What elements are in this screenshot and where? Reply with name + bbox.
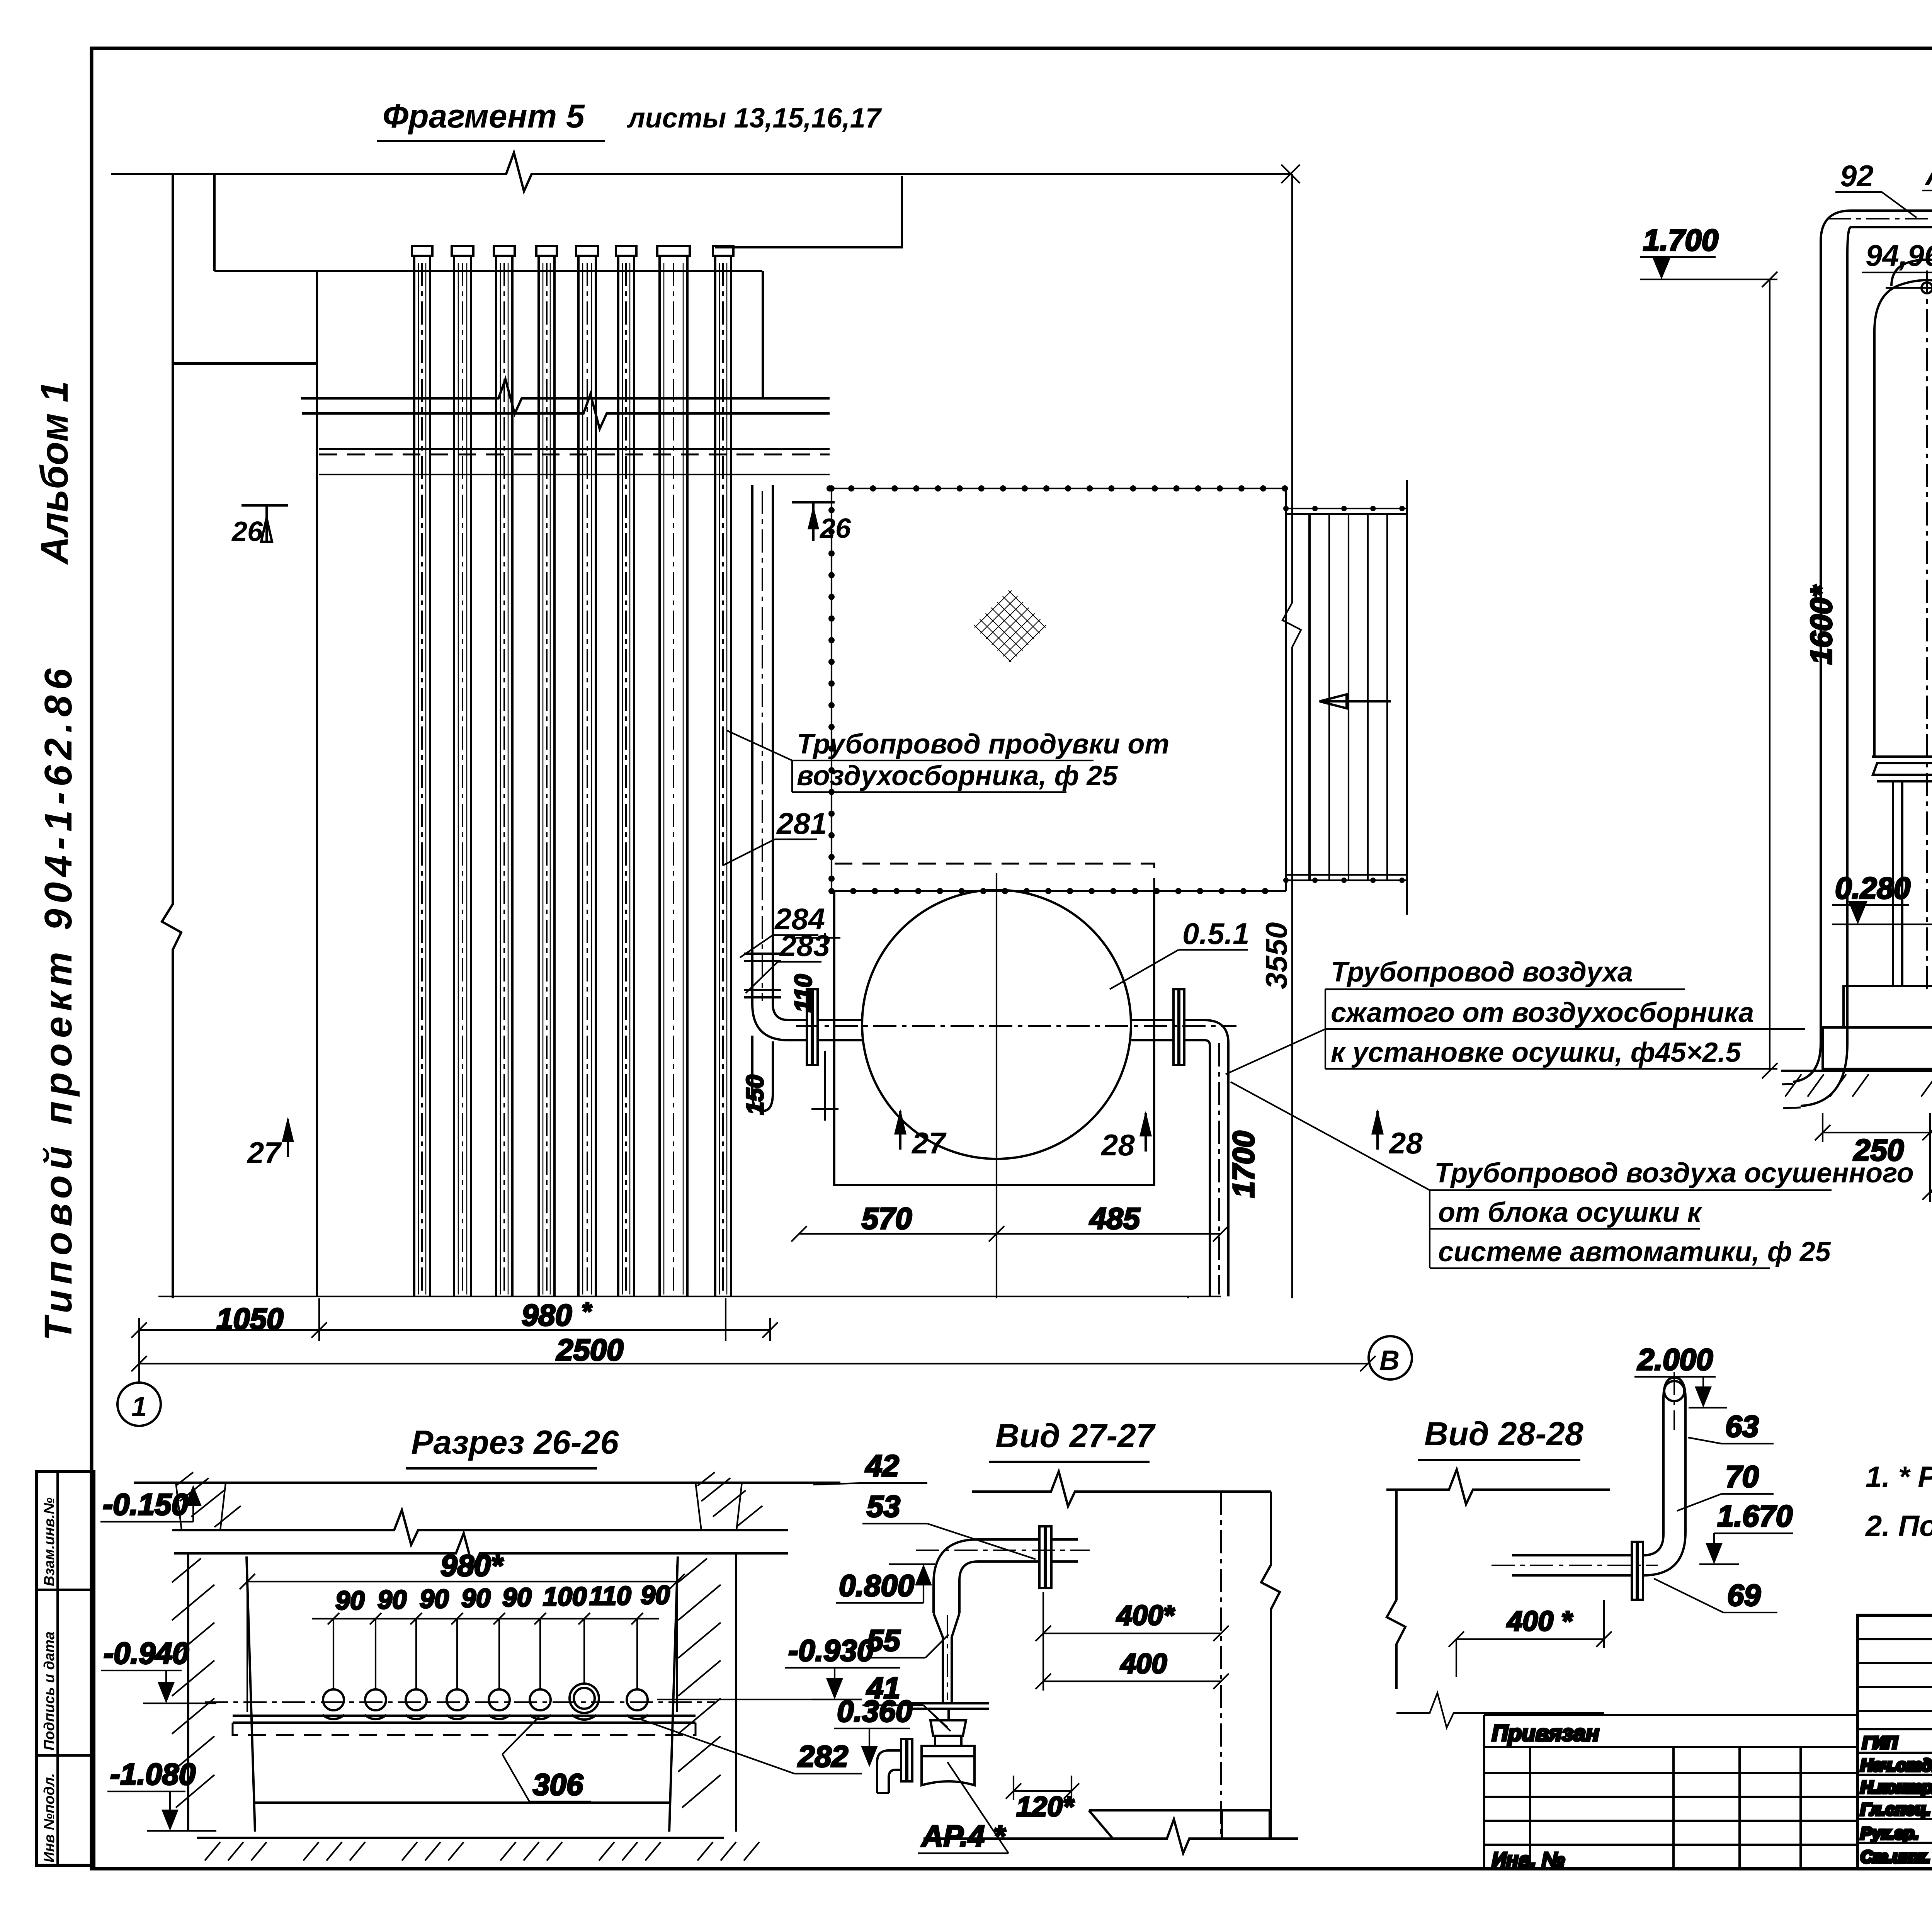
view27 wall vertical <box>1261 1492 1280 1839</box>
label 92 <box>1835 159 1917 218</box>
cable tray band <box>319 448 830 450</box>
svg-text:1.700: 1.700 <box>1643 223 1718 257</box>
svg-text:92: 92 <box>1840 159 1874 193</box>
blowdown pipe 281 <box>744 485 781 1004</box>
label 282 <box>641 1720 862 1774</box>
under-slab hatch <box>205 1842 759 1861</box>
dryer unit box dotted border <box>830 488 1286 891</box>
svg-text:от блока осушки к: от блока осушки к <box>1438 1197 1702 1228</box>
title block <box>1857 1615 1932 1870</box>
wall axis with 3550 dim <box>1282 174 1301 1298</box>
svg-text:281: 281 <box>776 806 827 840</box>
mark 0.800 <box>836 1564 935 1603</box>
view28 lower dim line <box>1396 1693 1604 1728</box>
svg-text:0.5.1: 0.5.1 <box>1182 917 1249 951</box>
pipe support beam <box>233 1716 696 1735</box>
plan bottom edge <box>158 1296 1221 1297</box>
floor slab top <box>134 1482 840 1484</box>
svg-text:1600*: 1600* <box>1804 584 1838 665</box>
wall beam <box>173 362 317 365</box>
svg-text:системе автоматики, ф 25: системе автоматики, ф 25 <box>1438 1237 1831 1267</box>
section mark 26 left <box>792 502 851 544</box>
view27 wall line <box>972 1471 1271 1506</box>
dim 120* <box>1006 1776 1079 1822</box>
top pipe centerline <box>1828 218 1932 219</box>
dim 570/485 <box>791 1201 1228 1242</box>
ground hatching <box>1785 1074 1932 1097</box>
trench right wall <box>669 1553 736 1832</box>
svg-text:400 *: 400 * <box>1506 1606 1573 1637</box>
svg-text:1700: 1700 <box>1226 1131 1260 1198</box>
receiver axis vertical <box>996 873 997 1298</box>
dim 1.700 <box>1640 223 1777 279</box>
dim 400* view27 <box>1036 1592 1229 1642</box>
feed pipe 92 elbow <box>1821 211 1932 1043</box>
dim 110 150 <box>742 933 840 1121</box>
svg-text:570: 570 <box>862 1201 912 1235</box>
svg-text:26: 26 <box>231 516 263 547</box>
air intake louvre <box>1286 480 1407 915</box>
svg-text:Вид 27-27: Вид 27-27 <box>995 1417 1156 1454</box>
svg-text:Рук.гр.: Рук.гр. <box>1861 1824 1919 1843</box>
svg-text:Инв. №: Инв. № <box>1492 1849 1565 1871</box>
label 94,96,98,100 <box>1862 231 1932 272</box>
svg-text:53: 53 <box>867 1489 900 1523</box>
crosshatch patch <box>973 589 1047 663</box>
svg-text:3550: 3550 <box>1259 922 1293 989</box>
left vessel axis <box>1926 270 1928 989</box>
trench left wall <box>172 1553 255 1832</box>
svg-text:28: 28 <box>1388 1126 1423 1160</box>
svg-text:Трубопровод продувки от: Трубопровод продувки от <box>797 729 1169 760</box>
svg-text:27: 27 <box>247 1136 282 1170</box>
svg-text:69: 69 <box>1727 1578 1761 1612</box>
label 284 <box>740 902 825 958</box>
dim 300 <box>1922 1132 1932 1202</box>
svg-text:2500: 2500 <box>556 1333 624 1367</box>
svg-text:2.000: 2.000 <box>1637 1342 1713 1376</box>
receiver axis horizontal <box>796 1025 1236 1027</box>
pipe riser 1 <box>412 246 432 1296</box>
pipe riser 4 <box>536 246 557 1296</box>
dim 250 <box>1815 1113 1932 1167</box>
wall step right <box>715 176 902 247</box>
label AP.38 <box>1922 157 1932 220</box>
axis bubble 1 <box>117 1383 161 1426</box>
wall top line <box>111 153 1291 191</box>
svg-text:90: 90 <box>502 1583 532 1612</box>
svg-text:283: 283 <box>779 929 830 963</box>
pipe riser 7 wide <box>657 246 690 1296</box>
mark 1.670 <box>1699 1499 1793 1564</box>
svg-text:Подпись и дата: Подпись и дата <box>41 1631 58 1750</box>
svg-text:-1.080: -1.080 <box>110 1757 196 1791</box>
right column hatched <box>696 1472 762 1530</box>
label 55 <box>862 1623 949 1658</box>
svg-text:-0.930: -0.930 <box>788 1633 874 1667</box>
view28 wall vertical <box>1387 1490 1405 1689</box>
label 53 <box>862 1489 1036 1559</box>
svg-text:Ст.инж.: Ст.инж. <box>1861 1847 1930 1866</box>
trench top line <box>174 1533 788 1568</box>
label 69 <box>1654 1578 1777 1613</box>
svg-text:Инв №подл.: Инв №подл. <box>41 1773 58 1863</box>
svg-text:306: 306 <box>533 1767 583 1801</box>
dim 400* view28 <box>1449 1600 1612 1677</box>
view28 pipe <box>1492 1372 1685 1600</box>
svg-text:27: 27 <box>911 1126 947 1160</box>
svg-text:90: 90 <box>461 1584 491 1613</box>
receiver pit rectangle <box>834 891 1154 1185</box>
mark -0.150 <box>100 1485 202 1522</box>
dim line 1050 / 980* <box>131 1297 778 1341</box>
mark -0.930 <box>657 1633 900 1699</box>
svg-text:воздухосборника, ф 25: воздухосборника, ф 25 <box>797 760 1118 791</box>
drain stub cap <box>752 1036 773 1111</box>
foundation steps <box>1823 986 1932 1069</box>
section mark 27 left <box>247 1117 294 1170</box>
svg-text:Трубопровод воздуха осушенного: Трубопровод воздуха осушенного <box>1434 1158 1914 1189</box>
mark 0.360 <box>834 1694 912 1767</box>
label AP.4* <box>918 1762 1009 1853</box>
svg-text:1. * Размеры для справок.: 1. * Размеры для справок. <box>1866 1461 1932 1493</box>
label 0.5.1 <box>1110 917 1249 989</box>
svg-text:1: 1 <box>131 1391 147 1422</box>
svg-text:ГИП: ГИП <box>1862 1733 1898 1752</box>
view27 axis <box>1220 1492 1222 1839</box>
elbow to receiver nozzle <box>752 1004 807 1040</box>
leader 41 to pipe <box>923 1705 947 1727</box>
dried air note <box>1231 1082 1914 1268</box>
svg-text:Разрез 26-26: Разрез 26-26 <box>411 1424 619 1461</box>
receiver right nozzle <box>1131 989 1205 1065</box>
receiver left nozzle <box>807 989 862 1065</box>
left margin table <box>36 1471 94 1865</box>
svg-text:400: 400 <box>1120 1648 1167 1679</box>
svg-text:Гл.спец.: Гл.спец. <box>1861 1800 1930 1819</box>
mark 2.000 <box>1634 1342 1727 1408</box>
ground line <box>1781 1070 1932 1072</box>
svg-text:70: 70 <box>1725 1459 1759 1493</box>
wall ledge <box>214 270 762 272</box>
svg-text:250: 250 <box>1853 1133 1904 1167</box>
signature names <box>1861 1733 1932 1866</box>
pipe riser 8 <box>713 246 733 1296</box>
view27 pedestal <box>1089 1810 1271 1839</box>
label 306 <box>502 1716 591 1801</box>
base slab <box>197 1837 724 1839</box>
label 0.280 <box>1832 871 1932 924</box>
svg-text:Типовой проект 904-1-62.86: Типовой проект 904-1-62.86 <box>37 668 80 1341</box>
svg-text:63: 63 <box>1725 1409 1759 1443</box>
duct ceiling line <box>172 1510 788 1545</box>
svg-text:Привязан: Привязан <box>1492 1721 1599 1746</box>
dim line 2500 <box>131 1333 1376 1383</box>
section mark 26 plan-left <box>231 505 288 547</box>
svg-text:120*: 120* <box>1016 1791 1075 1822</box>
view28 wall line <box>1386 1470 1610 1504</box>
svg-text:АР.4 *: АР.4 * <box>921 1819 1006 1853</box>
label 281 <box>723 806 827 866</box>
dim 1700 rotated <box>1188 1131 1260 1298</box>
svg-text:2. Позиции см. листы 28-41.: 2. Позиции см. листы 28-41. <box>1865 1510 1932 1543</box>
trench floor <box>255 1801 669 1804</box>
pipe riser 5 <box>576 246 598 1296</box>
left adsorber vessel <box>1872 260 1932 986</box>
svg-text:сжатого от воздухосборника: сжатого от воздухосборника <box>1331 997 1754 1028</box>
horizontal pipe pair <box>301 379 830 414</box>
dim 1600* vertical <box>1762 272 1838 1078</box>
svg-text:94,96,98,100: 94,96,98,100 <box>1866 238 1932 272</box>
wall end tick <box>1281 165 1300 183</box>
svg-text:980*: 980* <box>440 1548 504 1582</box>
svg-text:-0.940: -0.940 <box>104 1636 189 1670</box>
label 42 <box>813 1449 927 1485</box>
section mark 27 mid <box>894 1109 947 1160</box>
section mark 28 right <box>1371 1109 1423 1160</box>
svg-text:-0.150: -0.150 <box>103 1487 188 1521</box>
outlet elbow down <box>1205 1020 1228 1296</box>
svg-text:26: 26 <box>819 513 851 544</box>
svg-text:АР.38: АР.38 <box>1925 157 1932 191</box>
svg-text:100: 100 <box>543 1582 587 1611</box>
svg-text:Нач.отд.: Нач.отд. <box>1861 1756 1932 1775</box>
svg-text:0.280: 0.280 <box>1835 871 1910 905</box>
svg-text:28: 28 <box>1100 1128 1135 1162</box>
svg-text:110: 110 <box>589 1581 631 1611</box>
svg-text:В: В <box>1379 1345 1400 1376</box>
svg-text:110: 110 <box>790 974 817 1012</box>
view27 valve <box>877 1703 989 1793</box>
label 283 <box>746 929 830 993</box>
left column hatched <box>176 1472 241 1530</box>
svg-text:150: 150 <box>742 1075 769 1115</box>
svg-text:Н.контр.: Н.контр. <box>1861 1778 1932 1797</box>
section mark 28 mid <box>1100 1111 1152 1162</box>
pipe risers group <box>412 246 733 1296</box>
wall vertical B <box>213 174 216 271</box>
wall vertical A <box>162 174 181 1298</box>
svg-text:0.360: 0.360 <box>837 1694 912 1728</box>
svg-text:Взам.инв.№: Взам.инв.№ <box>41 1497 58 1586</box>
svg-text:980: 980 <box>522 1298 572 1332</box>
attachment table <box>1484 1715 1857 1871</box>
pipe riser 6 <box>616 246 636 1296</box>
pipes in trench <box>323 1684 648 1720</box>
svg-text:485: 485 <box>1089 1201 1141 1235</box>
label 70 <box>1677 1459 1774 1511</box>
wall vertical C <box>316 271 318 1296</box>
air receiver circle <box>862 890 1131 1159</box>
blowdown note text <box>726 729 1169 792</box>
svg-text:90: 90 <box>420 1584 449 1614</box>
view27 pipe with elbow <box>916 1526 1090 1704</box>
svg-text:Фрагмент 5: Фрагмент 5 <box>383 98 585 135</box>
svg-text:90: 90 <box>335 1586 365 1615</box>
svg-text:400*: 400* <box>1116 1600 1175 1631</box>
svg-text:к установке осушки, ф45×2.5: к установке осушки, ф45×2.5 <box>1331 1037 1742 1068</box>
svg-text:42: 42 <box>865 1449 899 1483</box>
dim 980* pit <box>240 1548 685 1712</box>
wall corner vertical <box>762 271 764 398</box>
label 41 <box>862 1671 951 1731</box>
mark -1.080 <box>107 1757 216 1831</box>
pipe riser 3 <box>494 246 515 1296</box>
feed pipe underground bend <box>1793 1043 1847 1106</box>
svg-text:0.800: 0.800 <box>839 1568 914 1602</box>
dashed partition inside box <box>835 864 1154 891</box>
svg-text:90: 90 <box>378 1585 407 1614</box>
svg-text:Вид 28-28: Вид 28-28 <box>1424 1415 1583 1453</box>
label 63 <box>1688 1409 1774 1444</box>
view27 floor line <box>923 1819 1298 1853</box>
svg-text:Альбом 1: Альбом 1 <box>33 381 76 565</box>
pipe spacing dims <box>312 1580 670 1689</box>
svg-text:Трубопровод воздуха: Трубопровод воздуха <box>1331 957 1633 988</box>
pipe centerline in trench <box>205 1701 715 1703</box>
svg-text:282: 282 <box>797 1739 848 1773</box>
svg-text:1050: 1050 <box>216 1302 284 1336</box>
dim 400 view27 <box>1036 1642 1229 1691</box>
compressed air note <box>1226 957 1805 1074</box>
signature grid <box>1857 1638 1932 1640</box>
svg-text:1.670: 1.670 <box>1717 1499 1793 1533</box>
pipe riser 2 <box>452 246 473 1296</box>
svg-text:*: * <box>582 1297 592 1325</box>
mark -0.940 <box>101 1636 216 1703</box>
axis bubble B <box>1369 1336 1412 1379</box>
svg-text:листы 13,15,16,17: листы 13,15,16,17 <box>627 103 882 134</box>
svg-text:90: 90 <box>641 1580 670 1610</box>
